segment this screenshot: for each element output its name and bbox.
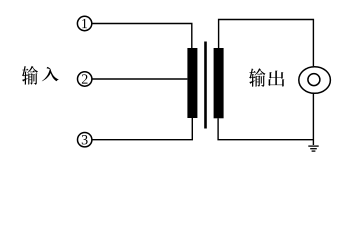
- node 1 digit label: [82, 19, 87, 28]
- transformer T1 secondary winding: [214, 48, 224, 118]
- wire connector to ground: [312, 94, 314, 146]
- node 1 terminal circle: [77, 16, 91, 30]
- output connector J1 outer ring: [299, 67, 331, 94]
- wire from terminal 2 to primary tap: [92, 78, 187, 80]
- wire from terminal 1 to primary top: [92, 24, 192, 49]
- node 3 terminal circle: [78, 133, 92, 147]
- wire secondary top to output loop: [219, 20, 314, 67]
- output connector J1 inner contact: [308, 74, 320, 86]
- transformer T1 primary winding: [187, 48, 197, 118]
- node 3 digit label: [82, 135, 88, 144]
- wire from terminal 3 to primary bottom: [92, 118, 192, 140]
- ground symbol: [308, 146, 318, 151]
- node 2 terminal circle: [78, 72, 92, 86]
- node 2 digit label: [82, 74, 88, 83]
- label 输出 (output): [249, 68, 284, 86]
- wire secondary bottom to output loop: [218, 118, 313, 139]
- transformer T1 core: [204, 42, 207, 129]
- label 输入 (input): [22, 66, 59, 85]
